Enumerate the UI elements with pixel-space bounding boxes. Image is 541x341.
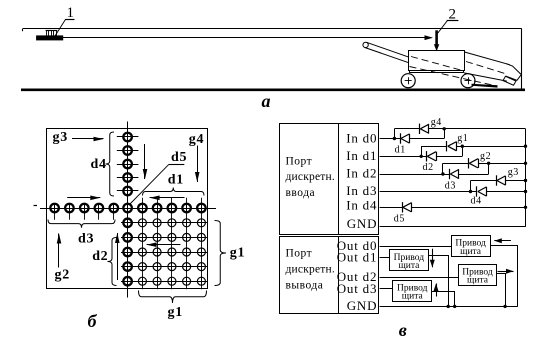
svg-text:Порт: Порт: [286, 156, 313, 168]
wire Out d1 row: [380, 257, 390, 259]
svg-text:g2: g2: [480, 151, 491, 162]
cart wheel left: [401, 74, 415, 88]
svg-text:In d4: In d4: [346, 197, 377, 212]
tick dash left of axis: [34, 205, 38, 207]
node row d3 bold contacts: [50, 204, 118, 213]
wire top rail line: [23, 29, 522, 32]
node bus dot g1: [524, 145, 527, 148]
brace g1 right: [215, 221, 227, 286]
svg-text:g4: g4: [189, 132, 204, 147]
arrow up of drive D: [436, 284, 438, 297]
dashed barrel axis inside body: [411, 57, 464, 71]
drive box A: [452, 236, 491, 257]
svg-text:GND: GND: [347, 216, 378, 231]
pin labels output port: [337, 238, 378, 313]
wire In d2 row: [380, 174, 489, 176]
wire g3 row: [471, 180, 526, 182]
port input name text: [286, 156, 335, 199]
diode g1: [447, 141, 457, 151]
wire GND row output: [380, 306, 518, 308]
wire g2 branch verticals: [443, 163, 489, 174]
wire In d4 row: [380, 207, 526, 209]
svg-text:дискретн.: дискретн.: [286, 171, 335, 183]
diode d2: [427, 151, 437, 161]
chute discharge bucket: [503, 64, 521, 85]
svg-text:в: в: [399, 320, 407, 340]
wire vertical axis: [127, 122, 129, 298]
cart body: [409, 51, 465, 71]
cart wheel right: [461, 74, 475, 88]
arrow right of drive C: [498, 271, 514, 273]
svg-text:2: 2: [449, 6, 457, 22]
wire Out d2 row: [380, 277, 459, 279]
arrow g3 right: [72, 138, 104, 140]
node junction g2: [487, 162, 490, 165]
diode d5: [403, 202, 412, 212]
arrow d2 up: [117, 233, 119, 280]
svg-text:In d1: In d1: [346, 148, 377, 163]
wire g4 branch verticals: [395, 129, 445, 139]
node grid thin contacts: [138, 218, 206, 286]
svg-text:g2: g2: [55, 268, 70, 283]
arrow g1 left inside grid: [147, 244, 181, 246]
svg-text:g3: g3: [508, 167, 519, 178]
wire drive B return: [429, 256, 450, 309]
wire grid vertical lines: [143, 198, 202, 289]
tick stems below row nodes: [55, 213, 114, 220]
svg-text:щита: щита: [460, 247, 482, 257]
drive box D: [393, 281, 432, 302]
node column d4 bold contacts: [123, 133, 132, 196]
conveyor chute: [464, 52, 510, 81]
wire cable line with arrow to flag: [63, 35, 433, 40]
port input divider: [338, 123, 340, 234]
svg-text:d2: d2: [92, 249, 108, 264]
svg-text:дискретн.: дискретн.: [286, 263, 335, 275]
wire g3 branch vertical: [470, 181, 472, 192]
svg-text:g4: g4: [431, 117, 442, 128]
leader d5 to center node: [130, 164, 169, 204]
svg-text:g1: g1: [168, 305, 183, 320]
wire horizontal axis: [40, 208, 216, 210]
svg-text:1: 1: [67, 5, 75, 21]
ground wedge: [472, 84, 498, 88]
brace d1: [143, 188, 205, 196]
brace d4: [106, 132, 115, 196]
arrow g2 up: [58, 234, 60, 268]
svg-text:In d0: In d0: [346, 131, 377, 146]
svg-text:g1: g1: [457, 133, 468, 144]
tick lines on column nodes: [117, 137, 139, 191]
arrow d1 left: [150, 197, 185, 199]
node bus dot In d3: [524, 190, 527, 193]
wire right boundary line: [521, 29, 523, 89]
dashed lower diagonal to wedge: [410, 67, 497, 87]
wire g2 row: [443, 163, 526, 165]
drive box B: [390, 250, 429, 272]
label 2 leader line: [437, 21, 458, 34]
device 1 sensor block with brush contacts: [37, 31, 63, 41]
cart platform line: [409, 71, 464, 73]
node junction In d1: [420, 155, 423, 158]
wire drive A return: [491, 246, 518, 307]
wire drive C return: [497, 274, 507, 309]
node bus dot g3: [524, 179, 527, 182]
label d5: [169, 150, 187, 165]
svg-text:ввода: ввода: [286, 187, 316, 199]
svg-text:Out d3: Out d3: [337, 281, 378, 296]
wire In d0 row: [380, 138, 445, 140]
diode g2: [469, 158, 479, 168]
node junction In d0: [393, 137, 396, 140]
drive box C: [459, 265, 497, 286]
node row d1 bold contacts: [138, 204, 206, 213]
diode d3: [450, 169, 460, 179]
wire Out d0 row: [380, 246, 452, 248]
svg-text:In d3: In d3: [346, 183, 377, 198]
arrow g4 down: [197, 146, 199, 183]
svg-text:g1: g1: [230, 246, 245, 261]
diode g3: [497, 175, 506, 185]
svg-text:d1: d1: [168, 172, 184, 187]
diode g4: [420, 124, 430, 134]
svg-text:d3: d3: [445, 180, 456, 191]
svg-text:щита: щита: [398, 261, 420, 271]
node junction g4: [443, 127, 446, 130]
svg-text:Порт: Порт: [286, 247, 313, 259]
node bus dot In d4: [524, 206, 527, 209]
brace g1 bottom: [139, 291, 207, 304]
svg-text:d1: d1: [395, 144, 406, 155]
diode d1: [401, 133, 410, 143]
svg-text:а: а: [262, 91, 271, 111]
arrow d3 right: [67, 197, 100, 199]
svg-text:d5: d5: [394, 213, 405, 224]
svg-text:Out d1: Out d1: [337, 250, 378, 265]
port output divider: [338, 236, 340, 313]
arrow d4 down: [144, 144, 146, 179]
port discrete input box U1: [280, 124, 379, 235]
wire right bus: [525, 129, 527, 227]
wire g4 row: [394, 128, 525, 130]
wire drive D return: [432, 292, 457, 309]
svg-text:d5: d5: [171, 150, 187, 165]
svg-text:d4: d4: [91, 157, 107, 172]
svg-text:щита: щита: [402, 291, 424, 301]
ground line: [21, 89, 525, 92]
node junction In d3: [469, 190, 472, 193]
port output name text: [286, 247, 335, 291]
svg-text:щита: щита: [467, 276, 489, 286]
svg-text:d3: d3: [78, 231, 94, 246]
wire grid horizontal lines: [121, 223, 208, 282]
port discrete output box U2: [280, 237, 379, 314]
flag pole 2 with down arrow: [434, 30, 439, 51]
svg-text:GND: GND: [347, 298, 378, 313]
node matrix outer frame: [47, 129, 208, 289]
label 1 leader line: [55, 19, 74, 35]
arrow down of drive B: [432, 249, 434, 268]
svg-text:In d2: In d2: [346, 166, 377, 181]
node column d2 bold contacts: [123, 219, 132, 286]
wire g1 branch verticals: [422, 146, 463, 156]
node junction In d2: [441, 172, 444, 175]
svg-text:вывода: вывода: [286, 279, 324, 291]
pin labels input port: [346, 131, 377, 232]
wire In d1 row: [380, 156, 463, 158]
diode d4: [477, 186, 487, 196]
cart barrel tube: [363, 42, 409, 63]
svg-text:d4: d4: [471, 196, 482, 207]
wire GND row input: [380, 226, 526, 228]
brace d2: [108, 238, 117, 286]
node bus dot g2: [524, 162, 527, 165]
brace d3: [48, 220, 115, 228]
wire g1 row: [421, 146, 525, 148]
node center contact: [123, 204, 132, 213]
wire Out d3 row: [380, 288, 393, 290]
wire In d3 row: [380, 191, 526, 193]
svg-text:d2: d2: [423, 162, 434, 173]
node junction g1: [461, 145, 464, 148]
arrow left of drive A: [494, 240, 511, 242]
svg-text:б: б: [88, 311, 98, 331]
svg-text:g3: g3: [53, 130, 68, 145]
